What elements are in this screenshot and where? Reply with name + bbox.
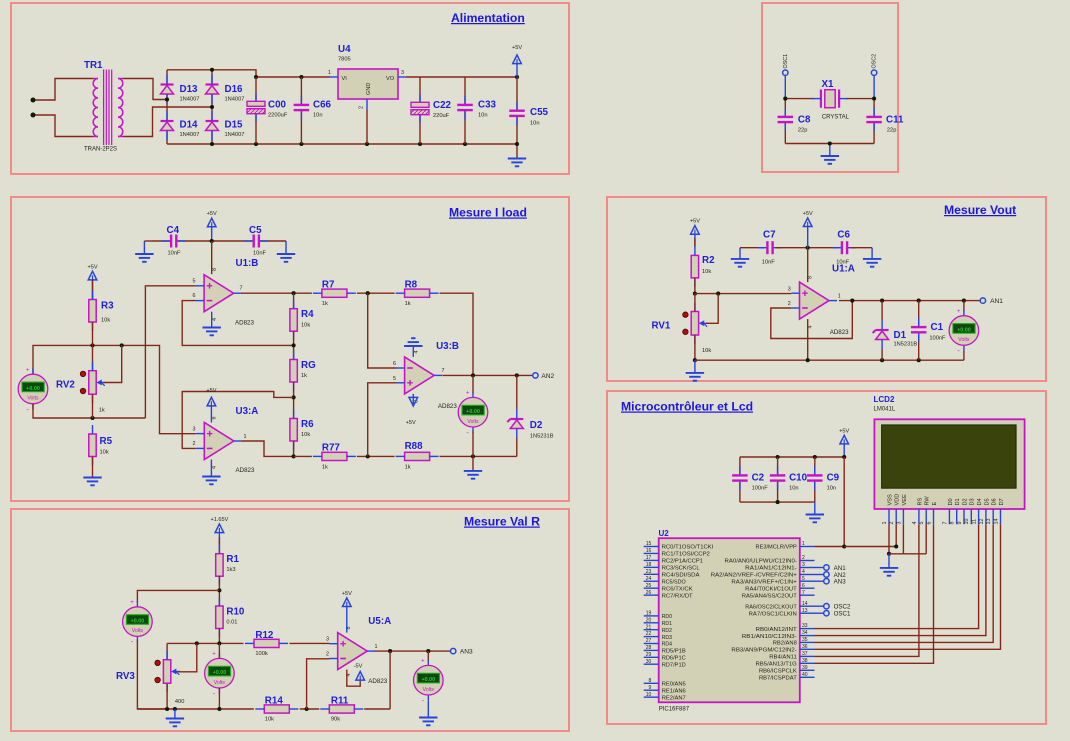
resistor R88 (396, 452, 439, 460)
terminal AN3 (824, 579, 829, 584)
wire R3 bottom (92, 322, 94, 345)
svg-text:OSC1: OSC1 (783, 54, 789, 69)
wire RV3 bottom (166, 684, 168, 709)
potentiometer RV2 (80, 362, 105, 404)
svg-text:10n: 10n (530, 121, 540, 127)
section box Mesure Vout (607, 197, 1046, 381)
resistor R7 (313, 289, 356, 297)
capacitor C00 (247, 94, 265, 122)
svg-text:R77: R77 (322, 443, 341, 454)
label U5:A (368, 616, 391, 627)
svg-text:35: 35 (802, 637, 808, 643)
svg-text:TRAN-2P2S: TRAN-2P2S (84, 147, 117, 153)
label R12 (255, 630, 274, 641)
op-amp U3:A (196, 423, 242, 460)
terminal OSC2 (871, 54, 877, 76)
pin 3 (193, 426, 196, 432)
label U1:B (236, 258, 259, 269)
junction (806, 358, 810, 362)
svg-text:RD6/P1C: RD6/P1C (662, 656, 686, 662)
svg-text:C2: C2 (752, 473, 765, 484)
label X1 value (822, 115, 850, 121)
title Mesure I load (449, 206, 527, 220)
svg-text:5: 5 (802, 576, 805, 582)
potentiometer RV1 (683, 303, 708, 345)
label R11 value (331, 717, 340, 723)
svg-text:C8: C8 (798, 115, 811, 126)
junction (776, 455, 780, 459)
ground (135, 254, 153, 262)
svg-text:1k: 1k (99, 408, 105, 414)
svg-text:RB1/AN10/C12IN3-: RB1/AN10/C12IN3- (742, 634, 797, 640)
wire C9 branch (814, 457, 816, 502)
wire VEE drop (902, 524, 904, 554)
resistor R77 (313, 452, 356, 460)
svg-text:RC5/SDO: RC5/SDO (662, 579, 687, 585)
wire crystal right (846, 98, 874, 100)
wire c6 rail (851, 247, 873, 249)
wire c6 gnd drop (871, 248, 873, 259)
regulator U4 7805 (328, 69, 406, 110)
svg-text:+0.00: +0.00 (131, 619, 145, 625)
svg-text:RD5/P1B: RD5/P1B (662, 649, 686, 655)
label D14 (180, 120, 199, 131)
voltmeter val R left (123, 600, 153, 646)
junction (217, 641, 221, 645)
pin 6 (393, 361, 396, 367)
junction (217, 588, 221, 592)
wire vm6 gnd (427, 701, 429, 718)
wire row456 c (440, 455, 517, 457)
display LCD2 LM041L (874, 419, 1024, 524)
wire OSC2 (815, 605, 824, 607)
svg-text:7: 7 (442, 368, 445, 374)
power +5V U5:A (342, 591, 352, 633)
wire OSC1 (815, 612, 824, 614)
svg-text:+: + (957, 309, 961, 315)
label RV1 value (702, 348, 711, 354)
label R1 value (226, 567, 235, 573)
pin 6 (193, 293, 196, 299)
wire vm4 top (218, 643, 220, 658)
pin 4 (212, 318, 218, 321)
wire fb drop (389, 651, 391, 709)
svg-text:1N5231B: 1N5231B (530, 434, 554, 440)
svg-text:RA1/AN1/C12IN1-: RA1/AN1/C12IN1- (745, 566, 797, 572)
power +5V MCLR (839, 428, 849, 457)
wire cap rail (740, 456, 844, 458)
svg-text:RS: RS (917, 497, 923, 505)
svg-text:RV1: RV1 (652, 321, 671, 332)
svg-text:U3:A: U3:A (236, 406, 259, 417)
wire RV1 bottom (694, 335, 696, 360)
wire C1 branch (918, 301, 920, 361)
svg-text:R2: R2 (702, 255, 715, 266)
svg-text:C9: C9 (827, 473, 840, 484)
svg-text:U3:B: U3:B (436, 341, 459, 352)
svg-text:1N4007: 1N4007 (225, 97, 245, 103)
svg-text:23: 23 (646, 569, 652, 575)
label R1 (226, 554, 239, 565)
pin 5 (393, 376, 396, 382)
svg-text:Volts: Volts (423, 687, 435, 693)
label C11 value (887, 128, 897, 134)
label RV1 (652, 321, 671, 332)
transformer TR1 (93, 70, 123, 146)
junction (165, 707, 169, 711)
svg-text:100nF: 100nF (752, 486, 769, 492)
svg-text:1: 1 (244, 434, 247, 440)
svg-text:16: 16 (646, 548, 652, 554)
svg-text:C6: C6 (837, 230, 850, 241)
wire RV1 top (694, 294, 696, 312)
svg-text:RE1/AN6: RE1/AN6 (662, 688, 686, 694)
svg-text:10nF: 10nF (253, 251, 266, 257)
wire OSC1 drop (784, 75, 786, 98)
svg-text:RV2: RV2 (56, 380, 75, 391)
svg-text:C11: C11 (886, 115, 904, 126)
svg-text:D13: D13 (180, 84, 199, 95)
wire D2 branch (516, 375, 518, 409)
svg-text:5: 5 (919, 522, 925, 525)
wire vm6 top (427, 651, 429, 661)
power +5V R2 (690, 219, 700, 247)
pin 1 (244, 434, 247, 440)
svg-text:7: 7 (802, 590, 805, 596)
junction (305, 707, 309, 711)
capacitor C7 (758, 241, 782, 254)
svg-text:PIC16F887: PIC16F887 (659, 707, 690, 713)
svg-text:AN2: AN2 (541, 373, 554, 380)
svg-text:C4: C4 (167, 225, 180, 236)
wire secondary bottom (123, 107, 212, 137)
svg-text:AD823: AD823 (438, 403, 457, 410)
svg-text:C10: C10 (789, 473, 808, 484)
ground (203, 328, 221, 336)
wire RV2 top (92, 345, 94, 370)
ground (863, 259, 881, 267)
svg-text:OSC2: OSC2 (834, 604, 851, 611)
svg-text:RC2/P1A/CCP1: RC2/P1A/CCP1 (662, 559, 703, 565)
svg-text:+5V: +5V (690, 219, 700, 225)
label U3:A (236, 406, 259, 417)
voltmeter val R out (414, 659, 444, 705)
junction (254, 142, 258, 146)
label C1 (931, 322, 944, 333)
wire R12 to pin3 (289, 642, 329, 644)
junction (463, 142, 467, 146)
label TRAN-2P2S (84, 147, 117, 153)
junction (366, 454, 370, 458)
label C33 value (478, 113, 488, 119)
svg-text:U1:B: U1:B (236, 258, 259, 269)
junction (210, 142, 214, 146)
wire bridge right column (211, 70, 213, 144)
label R14 (265, 696, 284, 707)
terminal OSC2 (824, 604, 829, 609)
svg-text:2: 2 (802, 555, 805, 561)
label RV2 (56, 380, 75, 391)
title Mesure Val R (464, 515, 540, 529)
wire pin3 row (695, 293, 791, 295)
label C66 (313, 100, 332, 111)
svg-text:10n: 10n (827, 486, 837, 492)
wire RV2 wiper (104, 345, 122, 382)
pin 8 (212, 268, 218, 271)
svg-text:2: 2 (326, 652, 329, 658)
node input A (31, 98, 36, 103)
wire U3A out (242, 441, 294, 456)
svg-text:+5V: +5V (87, 264, 97, 270)
junction (806, 246, 810, 250)
label AN3 (460, 649, 473, 656)
label RG value (301, 373, 307, 379)
ground (83, 478, 101, 486)
svg-text:36: 36 (802, 644, 808, 650)
junction (254, 75, 258, 79)
terminal AN1 (980, 298, 985, 303)
junction (471, 373, 475, 377)
svg-text:10n: 10n (789, 486, 799, 492)
wire bridge left column (166, 70, 168, 144)
svg-text:Volts: Volts (467, 419, 479, 425)
wire U5A out (375, 650, 451, 652)
junction (842, 544, 846, 548)
wire D6 net (815, 524, 994, 642)
pin 1 (375, 644, 378, 650)
wire row643 (167, 642, 243, 644)
svg-text:26: 26 (646, 590, 652, 596)
svg-text:RA0/AN0/ULPWU/C12IN0-: RA0/AN0/ULPWU/C12IN0- (725, 559, 797, 565)
svg-text:U5:A: U5:A (368, 616, 391, 627)
voltmeter Vout (949, 309, 979, 355)
label R5 value (100, 450, 109, 456)
resistor R12 (245, 639, 288, 647)
ground U3:B top (404, 338, 422, 357)
svg-text:3: 3 (193, 426, 196, 432)
zener D2 (507, 409, 523, 438)
wire RV1 gnd (694, 360, 696, 373)
pin 8 (413, 400, 419, 403)
potentiometer RV3 (155, 651, 180, 693)
svg-text:AD823: AD823 (235, 320, 254, 327)
junction (515, 75, 519, 79)
svg-text:15: 15 (646, 541, 652, 547)
resistor R14 (255, 705, 298, 713)
svg-text:+: + (130, 600, 134, 606)
label U1:A part (830, 329, 849, 336)
label D2 value (530, 434, 554, 440)
resistor R6 (290, 410, 297, 451)
svg-text:R6: R6 (301, 419, 314, 430)
svg-text:1N5231B: 1N5231B (894, 342, 918, 348)
label LCD2 (874, 395, 895, 404)
wire decouple rail (260, 240, 286, 242)
label U4 (338, 44, 351, 55)
terminal AN3 (451, 648, 456, 653)
label RV3 value (175, 699, 185, 705)
svg-text:Microcontrôleur et Lcd: Microcontrôleur et Lcd (621, 400, 753, 414)
junction (210, 105, 214, 109)
title Mesure Vout (944, 203, 1016, 217)
label D16 (225, 84, 244, 95)
wire c7 rail (740, 247, 764, 249)
svg-text:8: 8 (808, 276, 814, 279)
svg-text:6: 6 (393, 361, 396, 367)
svg-text:9: 9 (957, 522, 963, 525)
wire U1A gnd pin (807, 319, 809, 360)
label R5 (100, 436, 113, 447)
svg-text:RB7/ICSPDAT: RB7/ICSPDAT (759, 676, 797, 682)
svg-text:8: 8 (649, 678, 652, 684)
wire C66 branch (300, 77, 302, 144)
svg-text:RV3: RV3 (116, 671, 135, 682)
svg-text:RW: RW (925, 496, 931, 506)
wire bottom row a (138, 708, 254, 710)
wire bottom rail (167, 143, 517, 145)
ground (277, 254, 295, 262)
svg-text:2: 2 (359, 106, 365, 109)
svg-text:+5V: +5V (342, 591, 352, 597)
svg-text:1k: 1k (405, 301, 411, 307)
junction (716, 292, 720, 296)
label R88 value (405, 464, 411, 470)
wire RV3 wiper (178, 643, 197, 671)
diode D16 (206, 75, 219, 104)
wire vm2 top (472, 375, 474, 393)
svg-text:RA3/AN3/VREF+/C1IN+: RA3/AN3/VREF+/C1IN+ (731, 579, 797, 585)
junction (850, 299, 854, 303)
label C10 (789, 473, 808, 484)
svg-text:R10: R10 (226, 607, 245, 618)
svg-text:+0.00: +0.00 (466, 409, 480, 415)
svg-text:1N4007: 1N4007 (180, 97, 200, 103)
wire R4 col (293, 293, 295, 309)
svg-text:+: + (421, 659, 425, 665)
resistor R11 (320, 705, 363, 713)
wire RS net (815, 524, 919, 656)
junction (917, 299, 921, 303)
svg-text:1k: 1k (301, 373, 307, 379)
svg-text:10k: 10k (265, 717, 274, 723)
wire C33 branch (464, 77, 466, 144)
wire primary bottom (33, 115, 93, 137)
wire RV3 top (166, 643, 168, 659)
svg-text:1: 1 (838, 294, 841, 300)
svg-text:D14: D14 (180, 120, 199, 131)
label U5:A part (368, 678, 387, 685)
label U1:A (832, 264, 855, 275)
resistor R8 (396, 289, 439, 297)
terminal AN2 (824, 572, 829, 577)
svg-text:Mesure Val R: Mesure Val R (464, 515, 540, 529)
ground (464, 471, 482, 479)
label R2 value (702, 269, 711, 275)
wire vm5 top (137, 590, 219, 602)
label C66 value (313, 113, 323, 119)
svg-text:D16: D16 (225, 84, 244, 95)
label AN1 (990, 298, 1003, 305)
svg-text:4: 4 (212, 466, 218, 469)
power +5V U3:B bottom (406, 394, 418, 426)
wire R1 top (218, 537, 220, 554)
svg-text:RB2/AN8: RB2/AN8 (773, 641, 797, 647)
svg-text:1N4007: 1N4007 (225, 132, 245, 138)
label D1 (894, 330, 907, 341)
svg-text:19: 19 (646, 611, 652, 617)
svg-text:D15: D15 (225, 120, 244, 131)
label R3 (101, 301, 114, 312)
svg-text:+5V: +5V (207, 211, 217, 217)
wire R2 top (694, 238, 696, 246)
svg-text:Volts: Volts (958, 337, 970, 343)
label C5 value (253, 251, 266, 257)
svg-text:+5V: +5V (406, 420, 416, 426)
label U3:B (436, 341, 459, 352)
label C22 (433, 100, 452, 111)
label RG (301, 360, 316, 371)
svg-text:5: 5 (193, 278, 196, 284)
svg-text:Mesure I load: Mesure I load (449, 206, 527, 220)
wire R8 to out node (440, 293, 473, 375)
wire gnd link (785, 143, 874, 145)
svg-text:R4: R4 (301, 309, 314, 320)
svg-text:10nF: 10nF (168, 251, 181, 257)
node input B (31, 113, 36, 118)
svg-text:2: 2 (788, 301, 791, 307)
junction (813, 455, 817, 459)
svg-text:D3: D3 (970, 498, 976, 505)
wire U1A vplus (807, 248, 809, 282)
label R10 (226, 607, 245, 618)
svg-text:10k: 10k (101, 318, 110, 324)
label RV2 value (99, 408, 105, 414)
label R8 (405, 279, 418, 290)
svg-text:RD3: RD3 (662, 635, 672, 641)
wire R6 bottom (293, 441, 295, 456)
svg-text:+5V: +5V (512, 45, 522, 51)
svg-text:Mesure Vout: Mesure Vout (944, 203, 1016, 217)
label U2 part (659, 707, 690, 713)
diode D15 (206, 111, 219, 140)
svg-text:400: 400 (175, 699, 185, 705)
label AN3 (834, 579, 847, 586)
wire bridge top rail (167, 70, 330, 77)
svg-text:0.01: 0.01 (226, 620, 237, 626)
svg-text:RB4/AN11: RB4/AN11 (769, 655, 797, 661)
wire U3A pin2 net (182, 392, 293, 449)
junction (195, 641, 199, 645)
label R4 (301, 309, 314, 320)
pin 4 (346, 674, 352, 677)
wire R10 bottom (218, 629, 220, 644)
label C6 value (836, 260, 849, 266)
label C00 value (268, 113, 288, 119)
svg-text:C22: C22 (433, 100, 452, 111)
wire MCLR net (815, 457, 845, 547)
label C8 value (798, 128, 808, 134)
svg-text:RA2/AN2/VREF-/CVREF/C2IN+: RA2/AN2/VREF-/CVREF/C2IN+ (711, 573, 798, 579)
svg-text:C33: C33 (478, 100, 497, 111)
label C7 value (762, 260, 775, 266)
wire R4-RG (293, 331, 295, 359)
pin 7 (442, 368, 445, 374)
svg-text:Volts: Volts (214, 680, 226, 686)
svg-text:+0.00: +0.00 (421, 677, 435, 683)
label C9 value (827, 486, 837, 492)
power +5V (207, 211, 217, 241)
svg-text:220uF: 220uF (433, 113, 450, 119)
